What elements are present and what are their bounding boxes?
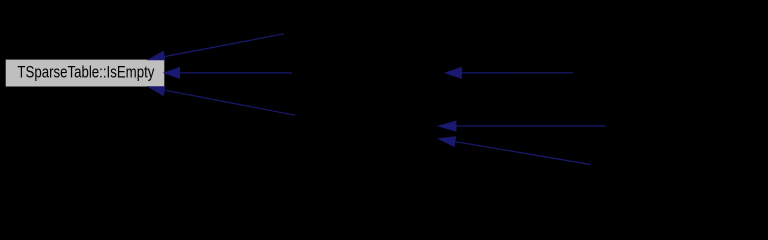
svg-text:TSparseTable::IsEmpty: TSparseTable::IsEmpty xyxy=(17,63,154,82)
